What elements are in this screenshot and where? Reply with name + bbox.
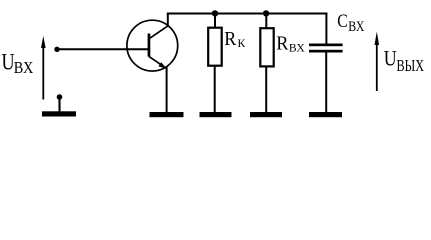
svg-text:R: R <box>276 32 289 54</box>
svg-text:ВХ: ВХ <box>289 42 305 54</box>
input terminal node (upper) <box>54 47 59 52</box>
label Uвх <box>2 49 34 77</box>
svg-text:U: U <box>384 46 397 71</box>
label Uвых <box>384 46 424 75</box>
svg-text:R: R <box>224 28 237 50</box>
transistor emitter diagonal <box>149 56 161 64</box>
wire: emitter down <box>166 67 168 113</box>
svg-text:ВХ: ВХ <box>14 58 34 77</box>
capacitor Свх bottom plate <box>309 50 343 53</box>
ground (emitter) <box>150 112 184 117</box>
wire: top supply rail <box>167 12 328 14</box>
wire: Rк bottom to ground <box>214 67 216 113</box>
input terminal node (lower) <box>57 94 63 100</box>
svg-text:ВЫХ: ВЫХ <box>397 56 425 75</box>
transistor base bar <box>148 34 151 57</box>
wire: input terminal to transistor base <box>57 48 149 50</box>
svg-text:К: К <box>238 36 246 50</box>
wire: rail corner down to capacitor <box>325 14 327 45</box>
ground (Rк) <box>200 112 232 117</box>
svg-text:ВХ: ВХ <box>348 19 365 35</box>
wire: junction to Rк top <box>214 13 216 27</box>
wire: lower terminal stub <box>58 97 60 112</box>
wire: capacitor bottom to ground <box>325 52 327 113</box>
node: rail to Rвх junction <box>263 10 269 16</box>
wire: Rвх bottom to ground <box>265 67 267 113</box>
node: rail to Rк junction <box>212 10 218 16</box>
arrow Uвых (output voltage direction) <box>375 32 380 91</box>
ground (capacitor) <box>309 112 342 117</box>
svg-text:C: C <box>337 11 348 32</box>
wire: collector to top rail <box>167 14 169 27</box>
svg-text:U: U <box>2 49 15 75</box>
resistor Rк <box>208 28 222 66</box>
ground (input common) <box>42 111 76 116</box>
ground (Rвх) <box>250 112 282 117</box>
wire: junction to Rвх top <box>265 13 267 28</box>
capacitor Свх top plate <box>309 44 343 47</box>
transistor collector diagonal <box>150 26 169 39</box>
resistor Rвх <box>260 28 273 66</box>
transistor emitter arrowhead <box>158 62 167 69</box>
label Rк <box>224 28 245 50</box>
transistor VT (NPN) body circle <box>127 20 178 71</box>
label Свх <box>337 11 365 35</box>
arrow Uвх (input voltage direction) <box>41 36 46 100</box>
label Rвх <box>276 32 304 54</box>
